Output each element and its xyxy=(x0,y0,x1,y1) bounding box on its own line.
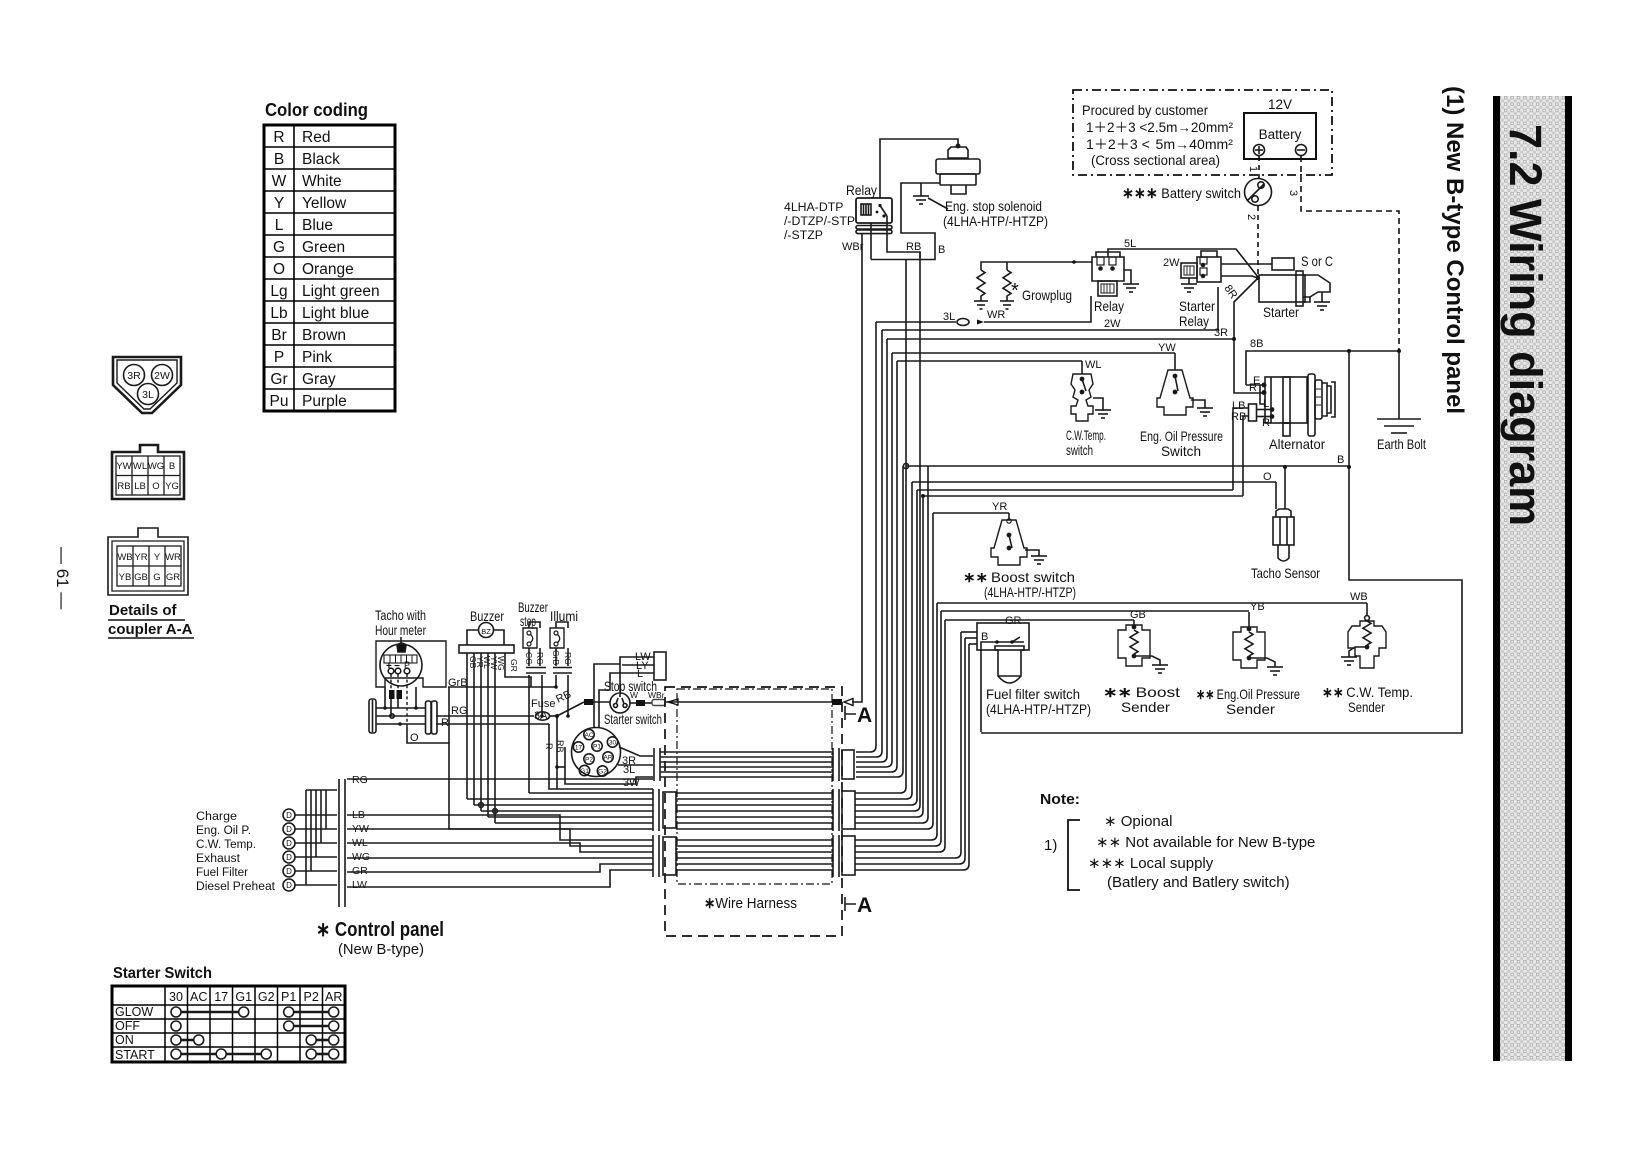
svg-text:OFF: OFF xyxy=(115,1019,140,1033)
wire WBr riser relay-to-harness xyxy=(852,233,862,702)
battery BT1 body xyxy=(1244,113,1316,159)
svg-text:Switch: Switch xyxy=(1161,443,1201,459)
svg-text:WL: WL xyxy=(133,461,147,472)
riser GB to bundle 3 xyxy=(855,620,945,852)
buzzer mounting bar xyxy=(459,645,514,653)
svg-text:Fuse: Fuse xyxy=(531,698,555,710)
svg-text:Gray: Gray xyxy=(302,371,336,388)
svg-text:BZ: BZ xyxy=(481,627,491,636)
wire O drop to tacho sensor xyxy=(1275,482,1277,509)
junction tacho minus on R bus xyxy=(398,722,402,726)
wire 1: battery plus to battery switch (dashed) xyxy=(1258,156,1260,178)
inline connector on 3L/WR xyxy=(957,319,969,326)
coupler WB/YR/Y/WR shell xyxy=(108,528,188,595)
svg-text:Note:: Note: xyxy=(1040,791,1080,808)
starter relay xyxy=(1181,251,1221,284)
coupler YW/WL/WG/B shell xyxy=(112,445,184,499)
svg-text:(1) New B-type Control panel: (1) New B-type Control panel xyxy=(1441,86,1468,414)
wire from resistor 1 to RG bus xyxy=(390,699,392,716)
junction 8R x 3R xyxy=(1232,337,1236,341)
svg-text:Pink: Pink xyxy=(302,349,332,366)
svg-text:A: A xyxy=(857,704,872,727)
svg-text:Gr: Gr xyxy=(270,371,287,388)
wire 3: battery minus to earth bolt (dashed) xyxy=(1301,156,1399,351)
earth bolt ground symbol xyxy=(1377,418,1421,420)
svg-text:(Batlery and Batlery switch): (Batlery and Batlery switch) xyxy=(1107,874,1290,891)
svg-text:G1: G1 xyxy=(235,990,252,1004)
svg-text:C.W.Temp.: C.W.Temp. xyxy=(1066,427,1106,443)
junction GrB bus xyxy=(554,685,558,689)
wire: starter relay to S-or-C terminal xyxy=(1221,263,1272,265)
starter switch table xyxy=(112,965,345,1062)
riser WL to bundle 1 xyxy=(856,361,897,772)
tacho housing legs xyxy=(384,687,386,709)
wire GrB riser down xyxy=(448,687,450,743)
buzzer stop switch S6 xyxy=(523,628,537,648)
fuse F2 3A xyxy=(536,712,550,720)
junction RB x starter switch xyxy=(555,765,559,769)
svg-text:W: W xyxy=(630,690,638,700)
wire YR drop to boost switch xyxy=(1008,513,1010,520)
wire 8B bus xyxy=(1246,351,1399,385)
svg-text:∗∗ Boost: ∗∗ Boost xyxy=(1103,684,1180,700)
bundle 2 wires xyxy=(676,792,833,794)
relay K1 body xyxy=(856,198,892,223)
svg-text:∗∗ Eng.Oil Pressure: ∗∗ Eng.Oil Pressure xyxy=(1196,686,1300,702)
svg-text:G: G xyxy=(153,572,160,583)
wire B: fuel filter to bottom bus xyxy=(981,642,989,732)
svg-text:G1: G1 xyxy=(580,768,589,775)
fuel filter switch contacts xyxy=(989,641,1024,643)
junction RB bus left end xyxy=(921,494,925,498)
table contacts OFF row xyxy=(171,1021,181,1031)
note xyxy=(1040,791,1315,891)
connector (black) at harness right xyxy=(832,699,842,705)
svg-text:GB: GB xyxy=(134,572,148,583)
open junction tacho plus on RG bus xyxy=(390,714,394,718)
wire: alternator B output down xyxy=(1348,351,1350,467)
svg-text:Growplug: Growplug xyxy=(1022,287,1072,303)
wire WB drop to C.W. temp sender xyxy=(1366,603,1368,616)
wire GR from buzzer bar xyxy=(505,653,531,687)
svg-text:L: L xyxy=(1263,398,1269,410)
svg-text:L: L xyxy=(637,668,643,680)
svg-text:WB: WB xyxy=(1350,591,1368,603)
risers bundle1 xyxy=(856,322,903,777)
wire RG lamp connector to bundle 1 xyxy=(347,778,653,780)
coupler 3R/2W/3L shell xyxy=(113,357,181,413)
lamp bus matrix xyxy=(295,790,337,885)
connector block LW/LY/L xyxy=(654,652,666,680)
svg-text:WBr: WBr xyxy=(648,690,665,700)
wire GrB drop from illumi xyxy=(555,675,557,687)
open junction on B bus xyxy=(903,463,908,468)
C.W.Temp switch S2 xyxy=(1071,374,1093,421)
note bracket xyxy=(1068,820,1080,890)
svg-text:R: R xyxy=(544,743,554,750)
eng. stop solenoid L1 xyxy=(948,147,968,158)
svg-text:R: R xyxy=(273,129,284,146)
wire GR lamp to bundle 3 xyxy=(347,864,653,872)
tacho gauge P1 dial xyxy=(380,644,422,686)
wire CG drop xyxy=(528,675,530,793)
svg-text:(4LHA-HTP/-HTZP): (4LHA-HTP/-HTZP) xyxy=(943,214,1048,229)
svg-text:RB: RB xyxy=(117,481,130,492)
wire RG after fuse xyxy=(549,715,557,717)
riser B filter to bundle 3 xyxy=(855,644,969,870)
svg-text:7.2 Wiring diagram: 7.2 Wiring diagram xyxy=(1500,124,1551,526)
wire 3R bus xyxy=(887,338,1234,340)
wire RB diagonal to stop switch xyxy=(557,702,584,716)
svg-text:Relay: Relay xyxy=(846,182,877,198)
lamp DS4 Exhaust xyxy=(283,851,295,863)
starter relay K3 xyxy=(1197,257,1221,282)
lamp wires to bundle3 xyxy=(347,779,653,887)
svg-text:RG: RG xyxy=(535,652,545,665)
svg-text:B: B xyxy=(274,151,284,168)
svg-text:CG: CG xyxy=(524,652,534,665)
svg-text:B: B xyxy=(938,244,945,256)
riser GR to bundle 3 xyxy=(855,632,961,858)
tacho dropping resistor 2 xyxy=(397,690,403,699)
svg-text:LW: LW xyxy=(352,879,367,891)
wire YW drop to oil pressure switch xyxy=(1174,353,1176,370)
dashed drops from tacho terminals xyxy=(390,674,392,690)
ground symbol under solenoid xyxy=(913,195,929,197)
wire harness inner dash-dot box xyxy=(677,689,832,884)
svg-text:3L: 3L xyxy=(623,764,635,776)
svg-text:Sender: Sender xyxy=(1121,699,1170,715)
wire B bus xyxy=(906,465,1349,467)
svg-text:*: * xyxy=(1011,280,1019,302)
svg-text:Black: Black xyxy=(302,151,340,168)
svg-text:LB: LB xyxy=(134,481,146,492)
svg-text:WR: WR xyxy=(987,309,1005,321)
sidebar hatched band xyxy=(1500,96,1565,1061)
wire WL lamp to bundle 3 xyxy=(347,843,653,852)
svg-text:D: D xyxy=(286,867,292,876)
connector (black) before stop switch xyxy=(584,699,593,705)
wire L to connector xyxy=(622,672,654,674)
svg-text:∗∗∗ Battery switch: ∗∗∗ Battery switch xyxy=(1122,185,1241,202)
battery minus terminal xyxy=(1296,145,1307,156)
svg-text:17: 17 xyxy=(214,990,228,1004)
svg-text:2W: 2W xyxy=(1163,257,1180,269)
svg-text:Fuel Filter: Fuel Filter xyxy=(196,865,248,879)
starter switch S9 face xyxy=(572,728,621,777)
svg-text:Br: Br xyxy=(271,327,287,344)
wire B loop around senders xyxy=(981,467,1462,733)
wire WR to growplug relay xyxy=(984,296,1091,322)
svg-text:Starter: Starter xyxy=(1179,298,1215,314)
svg-text:GrB: GrB xyxy=(551,650,561,665)
svg-text:Lg: Lg xyxy=(270,283,287,300)
svg-text:Alternator: Alternator xyxy=(1269,436,1325,452)
junction B bus xyxy=(1347,465,1351,469)
battery plus terminal xyxy=(1254,145,1265,156)
ground at C.W.Temp switch xyxy=(1095,409,1111,411)
svg-text:/-STZP: /-STZP xyxy=(784,228,823,242)
svg-text:(4LHA-HTP/-HTZP): (4LHA-HTP/-HTZP) xyxy=(984,584,1076,600)
lamp wires to connector xyxy=(295,814,337,816)
svg-text:+: + xyxy=(386,661,392,672)
svg-text:O: O xyxy=(152,481,159,492)
wire 3R from starter switch xyxy=(619,747,653,756)
svg-text:B: B xyxy=(169,461,175,472)
wire B stub xyxy=(969,643,977,645)
svg-text:YG: YG xyxy=(165,481,179,492)
wire: plug bus 3 (R) xyxy=(376,723,425,725)
svg-text:(4LHA-HTP/-HTZP): (4LHA-HTP/-HTZP) xyxy=(986,701,1091,717)
tacho top window xyxy=(397,643,406,652)
left couplers xyxy=(53,357,194,638)
svg-text:3R: 3R xyxy=(127,370,141,382)
svg-text:∗∗∗ Local supply: ∗∗∗ Local supply xyxy=(1088,855,1214,872)
growplug resistor R2 xyxy=(1006,264,1008,270)
riser B to bundle 2 xyxy=(855,259,906,793)
connector WBr (outline) xyxy=(652,700,665,706)
wire YB drop to oil pressure sender xyxy=(1248,612,1250,627)
wire GB drop to boost sender xyxy=(1133,620,1135,625)
svg-text:Eng. Oil P.: Eng. Oil P. xyxy=(196,823,251,837)
customer-supply dash-dot box xyxy=(1073,90,1332,175)
svg-text:START: START xyxy=(115,1048,155,1062)
risers bundle2 xyxy=(855,252,933,829)
svg-text:coupler A-A: coupler A-A xyxy=(108,621,193,638)
svg-text:P1: P1 xyxy=(281,990,296,1004)
svg-text:30: 30 xyxy=(609,740,617,747)
svg-text:Y: Y xyxy=(274,195,284,212)
svg-text:GLOW: GLOW xyxy=(115,1005,153,1019)
svg-text:D: D xyxy=(286,881,292,890)
riser B3 to bundle 2 xyxy=(855,466,928,823)
hour meter digit row xyxy=(384,655,417,663)
svg-text:Brown: Brown xyxy=(302,327,346,344)
svg-text:Orange: Orange xyxy=(302,261,354,278)
wire WL buzzer to bundle 2 xyxy=(481,810,653,812)
starter M1 xyxy=(1272,258,1294,270)
riser 3L to bundle 1 xyxy=(856,322,876,752)
svg-text:RG: RG xyxy=(563,652,573,665)
wire YW lamp to bundle 3 xyxy=(347,829,653,846)
svg-text:Eng. Oil Pressure: Eng. Oil Pressure xyxy=(1140,428,1223,444)
coupler YW WL WG B / RB LB O YG xyxy=(112,445,184,499)
wire LW to starter switch xyxy=(594,664,620,728)
wire RB bus xyxy=(923,495,1243,497)
svg-text:∗∗ Not available for New B-typ: ∗∗ Not available for New B-type xyxy=(1096,834,1315,851)
svg-text:A: A xyxy=(857,894,872,917)
wire to tacho sensor xyxy=(1284,467,1286,509)
fuel filter body F1 xyxy=(995,646,1024,683)
lamps xyxy=(196,809,276,893)
riser WB to bundle 3 xyxy=(855,603,937,840)
riser O to bundle 2 xyxy=(855,482,912,799)
svg-text:2W: 2W xyxy=(1104,318,1121,330)
senders xyxy=(933,467,1462,733)
coupler WB YR Y WR / YB GB G GR xyxy=(108,528,188,595)
svg-text:YR: YR xyxy=(992,501,1007,513)
wire R drop xyxy=(549,724,557,789)
buzzer wire drops xyxy=(448,653,556,823)
svg-text:Red: Red xyxy=(302,129,330,146)
svg-text:Blue: Blue xyxy=(302,217,333,234)
junction RG x buzzer stop xyxy=(540,714,544,718)
svg-text:Starter: Starter xyxy=(1263,304,1299,320)
junction RG x illumi xyxy=(566,714,570,718)
wire RB from alternator R xyxy=(1243,416,1248,496)
lamp DS6 Diesel Preheat xyxy=(283,879,295,891)
panel connector CN1 xyxy=(426,701,432,734)
bundle 1 xyxy=(654,748,839,781)
svg-text:Pu: Pu xyxy=(270,393,289,410)
engine components top xyxy=(784,139,1333,393)
pointer line to solenoid ground xyxy=(928,198,948,209)
wire 2W bus xyxy=(882,287,1218,330)
inline connector arrow xyxy=(977,320,984,325)
wire GB bus xyxy=(945,619,1134,621)
wire R bus xyxy=(436,723,549,725)
wire 8R: starter to alternator R xyxy=(1234,278,1262,393)
svg-text:P2: P2 xyxy=(585,757,593,764)
ground at growplug relay xyxy=(1123,283,1139,285)
lamp bus matrix verticals xyxy=(305,790,307,885)
engine components mid xyxy=(963,338,1426,600)
lamp DS2 Eng. Oil P. xyxy=(283,823,295,835)
svg-text:∗ Control panel: ∗ Control panel xyxy=(316,919,444,941)
wire: plug bus 2 (RG) xyxy=(376,715,425,717)
svg-text:(Cross sectional area): (Cross sectional area) xyxy=(1091,153,1220,168)
wire LB bus xyxy=(917,489,1233,491)
svg-text:GR: GR xyxy=(166,572,180,583)
relay K1 coil xyxy=(861,204,871,215)
starter xyxy=(1259,258,1330,306)
svg-text:G2: G2 xyxy=(598,769,607,776)
battery area xyxy=(1073,90,1399,351)
buzzer lead right xyxy=(494,630,505,645)
color coding table xyxy=(264,100,395,411)
svg-text:WB: WB xyxy=(117,552,132,563)
svg-text:8B: 8B xyxy=(1250,338,1263,350)
svg-text:W: W xyxy=(272,173,287,190)
svg-text:D: D xyxy=(286,853,292,862)
svg-text:Yellow: Yellow xyxy=(302,195,347,212)
svg-text:G: G xyxy=(273,239,285,256)
wire O from tacho to bundle 2 xyxy=(407,727,653,829)
svg-text:WG: WG xyxy=(496,656,506,671)
wire YR bus xyxy=(933,512,1009,514)
svg-text:White: White xyxy=(302,173,342,190)
svg-text:Fuel filter switch: Fuel filter switch xyxy=(986,686,1080,702)
ground at starter xyxy=(1314,301,1330,303)
svg-text:YR: YR xyxy=(134,552,147,563)
wire RB drop to harness xyxy=(557,716,653,789)
growplug relay K2 xyxy=(1092,257,1124,281)
svg-text:WG: WG xyxy=(148,461,164,472)
wire to stop switch xyxy=(593,701,610,703)
bundle 3 wires xyxy=(676,839,833,841)
svg-text:Charge: Charge xyxy=(196,809,237,823)
svg-text:4LHA-DTP: 4LHA-DTP xyxy=(784,200,843,214)
svg-text:WBr: WBr xyxy=(842,241,864,253)
svg-text:R: R xyxy=(1249,382,1257,394)
svg-text:Color coding: Color coding xyxy=(265,100,368,120)
svg-text:P2: P2 xyxy=(304,990,319,1004)
svg-text:switch: switch xyxy=(1066,442,1093,458)
junction tacho leg 2 on bus xyxy=(414,706,418,710)
wire 2: battery switch to starter (dashed) xyxy=(1257,206,1259,277)
wire: relay to solenoid top xyxy=(880,139,958,198)
wire GR stub 1 xyxy=(961,631,977,633)
bundle 3 connectors xyxy=(652,835,654,877)
svg-text:Buzzer: Buzzer xyxy=(470,608,504,624)
wire LY to connector xyxy=(622,664,654,666)
lamp DS1 Charge xyxy=(283,809,295,821)
svg-text:1: 1 xyxy=(1247,166,1259,172)
svg-text:D: D xyxy=(286,811,292,820)
open junction 2 on bundle 2 feed xyxy=(493,809,498,814)
section mark A (bottom) xyxy=(845,897,856,911)
buzzer BZ1 xyxy=(479,623,494,638)
eng. oil pressure sender R4 xyxy=(1233,627,1265,668)
buzzer drops feeding bundle2 xyxy=(467,793,653,823)
table contacts GLOW row xyxy=(171,1007,181,1017)
battery switch S1 xyxy=(1245,179,1272,206)
svg-text:30: 30 xyxy=(169,990,183,1004)
wire WG lamp to bundle 3 xyxy=(347,857,653,859)
wire L to starter switch xyxy=(599,673,622,728)
svg-text:Y: Y xyxy=(154,552,161,563)
svg-text:L: L xyxy=(275,217,284,234)
wire harness outer dashed box xyxy=(665,687,842,936)
svg-text:Relay: Relay xyxy=(1179,313,1209,329)
svg-text:Eng. stop solenoid: Eng. stop solenoid xyxy=(945,199,1042,214)
buzzer lead left xyxy=(467,630,479,645)
eng stop solenoid xyxy=(936,144,980,194)
junction at starter B terminal xyxy=(1256,276,1260,280)
wire WB bus xyxy=(937,602,1367,604)
tacho sensor B1 xyxy=(1276,509,1291,517)
wire to earth bolt xyxy=(1398,351,1400,419)
svg-text:GR: GR xyxy=(352,865,368,877)
svg-text:RB: RB xyxy=(906,241,921,253)
riser RB2 to bundle 2 xyxy=(855,496,923,817)
svg-text:1): 1) xyxy=(1044,837,1057,854)
svg-text:Relay: Relay xyxy=(1094,298,1124,314)
wire YW buzzer to bundle 2 xyxy=(488,816,653,818)
wire stub to starter switch box xyxy=(557,766,565,768)
svg-text:P: P xyxy=(274,349,284,366)
svg-text:AC: AC xyxy=(190,990,207,1004)
svg-text:G2: G2 xyxy=(258,990,275,1004)
svg-text:P: P xyxy=(404,660,410,670)
tacho dropping resistor 1 xyxy=(389,690,395,699)
open terminal at C.W. temp sender xyxy=(1365,616,1370,621)
svg-text:O: O xyxy=(273,261,285,278)
svg-text:RB: RB xyxy=(555,740,565,753)
harness xyxy=(653,687,872,936)
alternator xyxy=(1246,374,1335,436)
svg-text:Procured by customer: Procured by customer xyxy=(1082,103,1208,118)
svg-text:Tacho with: Tacho with xyxy=(375,607,426,623)
riser YB to bundle 3 xyxy=(855,611,941,846)
riser YR to bundle 2 xyxy=(855,513,933,829)
buzzer wire drops GB YR WL YW WG xyxy=(466,653,468,799)
svg-text:YB: YB xyxy=(119,572,132,583)
relay K1 switch contacts xyxy=(878,204,881,207)
svg-text:D: D xyxy=(286,825,292,834)
svg-text:Hour meter: Hour meter xyxy=(375,622,426,638)
svg-text:2: 2 xyxy=(1245,214,1257,220)
